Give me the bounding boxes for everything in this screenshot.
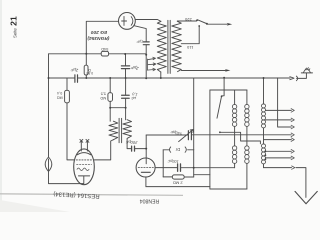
power transformer mains winding xyxy=(172,21,182,71)
resistor 0.4M grid bias xyxy=(66,78,68,90)
svg-text:110: 110 xyxy=(186,45,193,50)
wire loop left vertical xyxy=(162,150,164,177)
detector tube REN804 xyxy=(136,158,155,177)
svg-text:MΩ: MΩ xyxy=(100,96,106,100)
svg-text:2 MΩ: 2 MΩ xyxy=(173,180,183,185)
output tube RES164 xyxy=(74,149,95,185)
interstage transformer primary xyxy=(109,121,118,140)
wire winding to 200pF xyxy=(127,143,146,149)
svg-text:MΩ: MΩ xyxy=(57,96,63,100)
mains plug arrow 1 xyxy=(227,23,232,26)
wire mains lead 2 xyxy=(181,70,225,72)
wire cap to bus xyxy=(145,45,147,79)
svg-text:EG 200: EG 200 xyxy=(91,29,108,35)
wire lower tap rows xyxy=(266,151,292,158)
wire 220V tap xyxy=(177,20,196,22)
coil C fine winding xyxy=(263,78,265,168)
wire loop right vertical xyxy=(193,150,195,177)
rectifier tube RGN354/EG200 xyxy=(119,13,136,30)
capacitor 2uF series on bus xyxy=(75,75,78,83)
wire 550pF row xyxy=(146,134,291,136)
switch mains selector xyxy=(197,20,206,24)
page left edge shading xyxy=(0,0,2,212)
wire rectifier anode to transformer xyxy=(135,20,160,22)
svg-text:(RGN354): (RGN354) xyxy=(87,35,109,41)
wire earth tap row xyxy=(264,168,306,198)
wire B+ row y54 xyxy=(49,53,147,55)
svg-text:5,5: 5,5 xyxy=(101,92,106,96)
transformer tap arrows xyxy=(147,57,156,71)
wire top-left rail xyxy=(86,21,118,54)
wire mains lead 1 xyxy=(207,23,227,25)
resistor 54ohm xyxy=(101,51,108,56)
ground symbol xyxy=(301,72,312,74)
wire winding to output tube xyxy=(94,140,113,160)
wire switch bottom row xyxy=(220,132,261,144)
wire plate feed vertical xyxy=(193,78,195,150)
svg-text:REN804: REN804 xyxy=(140,198,160,204)
capacitor 2uF filter xyxy=(125,54,127,78)
contact band switch bottom xyxy=(219,131,221,133)
page corner smudge xyxy=(0,200,70,212)
capacitor 550pF trimmer xyxy=(188,131,191,140)
capacitor 200pF xyxy=(132,146,135,151)
bus end plug and ground xyxy=(290,77,294,80)
capacitor 100pF branch xyxy=(163,167,234,169)
coil B xyxy=(246,90,248,189)
capacitor 1uF xyxy=(143,42,149,45)
transformer core xyxy=(168,20,170,73)
svg-text:0,4: 0,4 xyxy=(57,91,62,95)
interstage secondary xyxy=(123,120,132,143)
wire left column xyxy=(48,54,50,157)
wire loop to tuner frame xyxy=(194,174,210,176)
bus B- main horizontal xyxy=(49,77,291,79)
tuner box top xyxy=(210,89,247,91)
capacitor 1.0uF xyxy=(125,78,127,120)
wire tie row xyxy=(110,107,125,109)
switch pivot xyxy=(206,23,208,25)
wire plate to loop xyxy=(155,167,163,169)
svg-text:Dr: Dr xyxy=(175,147,180,152)
contact band switch top xyxy=(221,95,223,97)
wire tap row 2 xyxy=(266,119,292,121)
wire tuner left vertical xyxy=(209,90,211,189)
fuse lens xyxy=(45,157,52,171)
mains plug arrow 2 xyxy=(225,69,230,72)
wire tap row 1 xyxy=(266,109,292,111)
contact 220V xyxy=(196,19,198,21)
interstage core xyxy=(119,118,122,142)
wire switch feed from bus xyxy=(222,78,224,96)
contact taps xyxy=(291,109,294,113)
resistor 5.5M xyxy=(109,78,111,93)
svg-text:0,55: 0,55 xyxy=(86,71,93,75)
coil A xyxy=(234,90,236,168)
choke Dr branch xyxy=(163,149,194,151)
wire rectifier cathode down xyxy=(134,26,146,42)
svg-text:2μF: 2μF xyxy=(70,67,79,73)
svg-text:220: 220 xyxy=(184,17,191,22)
wire tap row 5 xyxy=(264,139,292,141)
wire tap row 3 from bus xyxy=(278,78,292,127)
switch wave band lever xyxy=(217,97,221,118)
junction nodes xyxy=(48,77,50,79)
svg-text:1μF: 1μF xyxy=(136,40,143,44)
wire HV winding to bus xyxy=(160,72,162,78)
power transformer HV winding xyxy=(157,21,166,72)
earth arrow xyxy=(295,191,317,203)
resistor 2Mohm branch xyxy=(163,176,194,178)
wire 110V tap xyxy=(181,27,199,44)
svg-text:54Ω: 54Ω xyxy=(101,47,108,51)
resistor 0.55M above bus xyxy=(85,54,87,78)
wire bottom return xyxy=(146,187,247,189)
contact 110V xyxy=(198,25,200,27)
page fold line bottom xyxy=(0,194,183,196)
